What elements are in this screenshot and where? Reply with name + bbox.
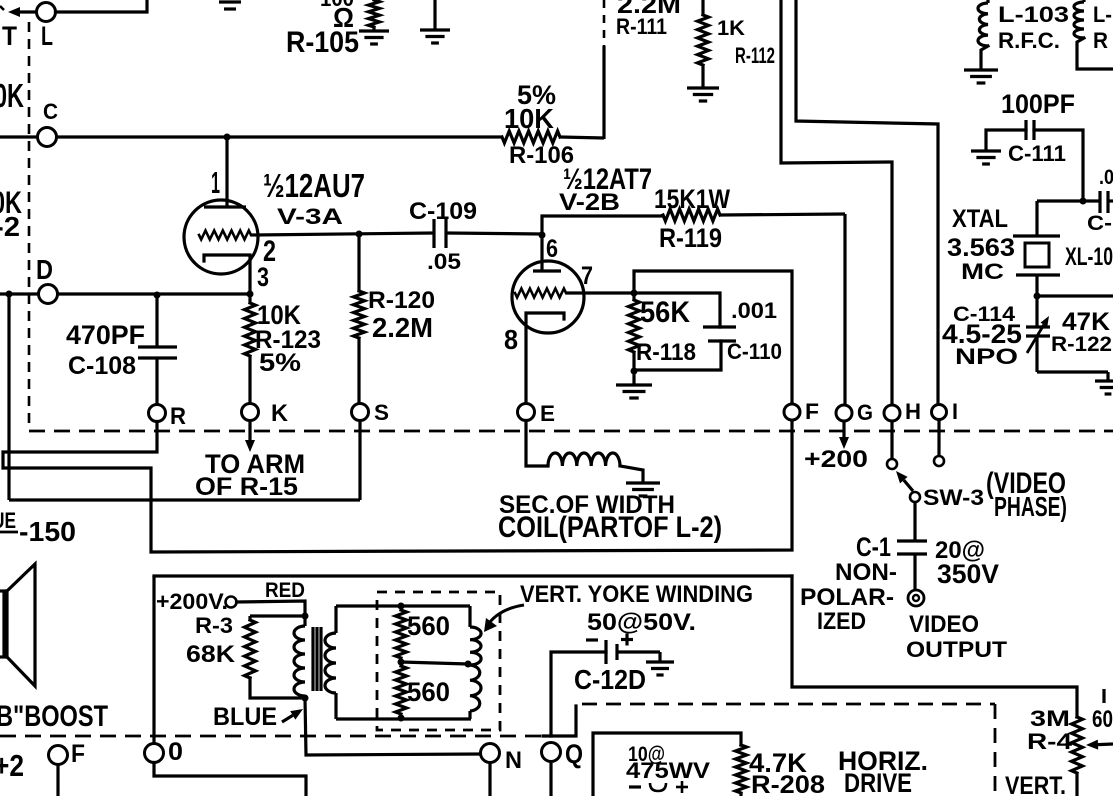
svg-text:VERT.: VERT.: [1005, 772, 1066, 796]
arrow node G +200: [804, 421, 868, 473]
svg-text:L-: L-: [1093, 2, 1112, 27]
junction 560 mid: [398, 659, 472, 668]
transformer secondary: [325, 606, 336, 719]
speaker: [0, 564, 35, 686]
wire yoke loop top: [336, 603, 470, 610]
node F bottom: [49, 740, 86, 796]
switch SW-3 pole: [910, 492, 920, 502]
wire plate pin 1 V-3A: [211, 137, 227, 207]
node R: [149, 404, 187, 430]
svg-text:C-1: C-1: [856, 532, 891, 562]
junction crystal top: [1037, 198, 1100, 205]
dashed line above R-106: [603, 0, 606, 46]
svg-text:2.2M: 2.2M: [372, 312, 433, 343]
wire plate pin 6 V-2B: [542, 235, 558, 271]
svg-text:Q: Q: [565, 739, 583, 769]
svg-text:1: 1: [211, 166, 220, 200]
resistor R-208: [736, 745, 826, 796]
arrow from K: [195, 421, 305, 501]
svg-text:½12AU7: ½12AU7: [263, 168, 365, 205]
terminal +200V: [156, 579, 305, 616]
svg-text:56K: 56K: [640, 297, 690, 329]
svg-text:RED: RED: [265, 579, 305, 602]
switch contact H: [887, 459, 897, 469]
wire yoke loop bottom: [336, 715, 471, 722]
wire R-106 up: [602, 46, 605, 139]
node D: [36, 254, 58, 304]
label BLUE with arrow: [213, 703, 303, 731]
svg-text:I: I: [952, 399, 958, 424]
resistor 560 lower: [396, 666, 451, 714]
svg-text:350V: 350V: [937, 559, 999, 589]
svg-text:POLAR-: POLAR-: [800, 585, 894, 611]
svg-text:C-110: C-110: [727, 339, 782, 364]
yoke coil upper: [470, 606, 481, 665]
switch contact I: [934, 456, 944, 466]
svg-text:N: N: [505, 748, 522, 774]
wire C line: [0, 135, 502, 138]
resistor R-123: [245, 294, 322, 403]
capacitor C-12D: [551, 610, 696, 736]
svg-text:.001: .001: [731, 298, 777, 323]
dashed horiz box top: [582, 703, 995, 706]
svg-text:-150: -150: [19, 516, 76, 547]
ground partial top-left: [219, 2, 241, 9]
transformer core: [313, 627, 321, 691]
svg-text:C-108: C-108: [68, 352, 136, 380]
wire S down: [358, 421, 361, 501]
junction C-108 top: [154, 292, 161, 299]
svg-text:560: 560: [407, 677, 450, 707]
svg-text:PHASE): PHASE): [994, 491, 1067, 522]
svg-text:.05: .05: [427, 249, 461, 274]
partial labels 0K -2: [0, 184, 22, 242]
cathode V-2B: [526, 313, 564, 404]
svg-text:R: R: [170, 404, 186, 430]
svg-text:R-4: R-4: [1027, 729, 1073, 754]
node K: [242, 401, 289, 427]
label VERT partial: [1005, 772, 1066, 796]
capacitor partial top-right: [1087, 166, 1113, 235]
yoke coil lower: [470, 665, 481, 719]
wire H to switch contact: [890, 421, 893, 459]
svg-text:60: 60: [1092, 707, 1113, 733]
svg-text:V-2B: V-2B: [559, 190, 620, 216]
svg-text:B"BOOST: B"BOOST: [0, 701, 108, 733]
svg-text:560: 560: [407, 611, 450, 641]
svg-text:OF R-15: OF R-15: [195, 473, 298, 501]
wire grid V-2B junction: [566, 290, 638, 297]
wire BLUE to node N: [305, 698, 481, 755]
dashed yoke winding box: [377, 592, 500, 730]
svg-text:XTAL: XTAL: [952, 205, 1008, 233]
junction D-left: [6, 291, 13, 298]
triode V-2B envelope: [512, 261, 584, 333]
terminal VIDEO OUTPUT: [906, 590, 1007, 662]
node H: [884, 399, 921, 424]
plate bar V-2B: [533, 269, 561, 272]
junction R-3 top: [302, 613, 309, 620]
triode V-3A envelope: [184, 200, 258, 274]
junction BLUE: [302, 695, 309, 702]
svg-text:6: 6: [546, 235, 558, 263]
resistor R-112: [687, 0, 775, 101]
dashed chassis line bottom: [0, 735, 543, 738]
svg-text:MC: MC: [961, 259, 1004, 284]
svg-text:R: R: [1093, 28, 1108, 53]
dashed border left: [28, 22, 31, 430]
svg-text:R-112: R-112: [735, 43, 775, 68]
svg-text:D: D: [36, 254, 53, 285]
svg-text:C-109: C-109: [409, 199, 477, 225]
arrow wiper R-4: [1086, 740, 1113, 750]
label B BOOST: [0, 701, 108, 733]
svg-text:H: H: [905, 399, 921, 424]
svg-text:475WV: 475WV: [626, 758, 710, 783]
wire S to D-branch: [9, 498, 360, 501]
svg-text:1K: 1K: [717, 17, 745, 40]
svg-text:L: L: [41, 21, 53, 51]
dashed chassis line AB: [29, 430, 1113, 433]
svg-text:T: T: [2, 21, 17, 51]
svg-text:R-120: R-120: [368, 288, 435, 314]
dashed horiz box right: [994, 704, 997, 796]
svg-text:V-3A: V-3A: [277, 204, 343, 229]
transformer primary: [294, 616, 305, 696]
svg-text:7: 7: [581, 262, 593, 290]
trimmer capacitor C-114: [942, 296, 1050, 372]
node O: [145, 738, 184, 766]
resistor 560 upper: [396, 610, 451, 658]
capacitor C-109: [409, 199, 542, 274]
switch SW-3 arm: [896, 471, 984, 510]
svg-text:5%: 5%: [259, 349, 301, 377]
junction node C-plate: [224, 134, 231, 141]
svg-text:470PF: 470PF: [66, 320, 145, 350]
inductor L-104 partial: [1074, 0, 1113, 69]
labels pins V-2B: [504, 262, 593, 355]
grid V-3A: [199, 231, 251, 240]
resistor R-118: [629, 293, 697, 375]
wire to node I: [796, 0, 938, 405]
node E: [518, 401, 556, 426]
svg-text:R-3: R-3: [195, 613, 233, 638]
wire box vert yoke top: [154, 574, 792, 577]
inductor L-103: [964, 0, 1069, 83]
label HORIZ DRIVE: [838, 746, 928, 796]
svg-text:8: 8: [504, 324, 518, 355]
node N: [481, 744, 523, 796]
wire to F top: [634, 271, 792, 404]
svg-text:47K: 47K: [1062, 308, 1110, 336]
wire R-119 to node G: [843, 214, 846, 406]
svg-text:R-208: R-208: [751, 771, 825, 796]
node G: [836, 400, 873, 425]
svg-text:C-: C-: [1087, 212, 1112, 235]
partial label 0K-left: [0, 78, 24, 115]
svg-text:OUTPUT: OUTPUT: [906, 637, 1007, 662]
svg-text:VIDEO: VIDEO: [909, 612, 979, 638]
svg-text:R-105: R-105: [286, 27, 359, 59]
svg-text:NPO: NPO: [955, 344, 1018, 369]
wire D line: [0, 292, 250, 295]
svg-text:-2: -2: [0, 211, 20, 242]
label 600 partial: [1092, 689, 1113, 733]
junction grid V-2B: [539, 232, 546, 239]
capacitor C-111: [971, 89, 1083, 201]
wire down from D-line left: [7, 294, 10, 500]
wire box right to R-4: [792, 576, 1077, 717]
svg-text:3M: 3M: [1030, 706, 1070, 731]
svg-text:0K: 0K: [0, 78, 24, 115]
node S: [352, 400, 390, 425]
svg-text:+2: +2: [0, 749, 24, 783]
partial label +2: [0, 749, 24, 783]
svg-text:R-111: R-111: [616, 14, 667, 39]
grid V-2B: [515, 289, 566, 298]
svg-text:DRIVE: DRIVE: [844, 768, 912, 796]
svg-text:3.563: 3.563: [947, 234, 1015, 262]
svg-text:+200V.: +200V.: [156, 589, 228, 614]
junction crystal bottom: [1034, 293, 1113, 300]
label V-3A: [257, 168, 365, 292]
resistor R-4: [1027, 706, 1083, 796]
svg-text:50@50V.: 50@50V.: [587, 610, 696, 636]
crystal XL-10: [947, 201, 1113, 296]
junction cathode V-3A: [247, 291, 254, 298]
node Q: [542, 739, 584, 796]
svg-text:E: E: [540, 401, 555, 426]
capacitor C-1: [800, 502, 999, 635]
resistor R-106: [502, 80, 604, 169]
svg-text:15K1W: 15K1W: [654, 184, 730, 214]
svg-text:F: F: [71, 740, 85, 768]
resistor R-120: [354, 234, 436, 403]
svg-text:L-103: L-103: [998, 2, 1069, 27]
resistor R-122 labels: [1051, 308, 1112, 356]
ground R-118: [616, 371, 652, 398]
svg-text:0: 0: [168, 738, 183, 766]
svg-text:XL-10: XL-10: [1065, 243, 1113, 271]
wire plate V-2B to R-119: [542, 216, 663, 235]
svg-text:S: S: [374, 400, 389, 425]
label video phase: [986, 468, 1067, 522]
svg-text:100PF: 100PF: [1001, 89, 1075, 119]
capacitor C-110: [634, 293, 782, 370]
wire R to F long path: [3, 421, 792, 553]
svg-text:VERT. YOKE WINDING: VERT. YOKE WINDING: [520, 582, 753, 608]
cathode V-3A: [204, 255, 250, 294]
terminal L with arrow to T: [2, 0, 147, 51]
capacitor 10@475WV box: [593, 733, 741, 796]
svg-text:C-12D: C-12D: [574, 664, 646, 695]
svg-text:C-111: C-111: [1008, 141, 1066, 166]
label VERT. YOKE WINDING: [484, 582, 753, 632]
svg-text:R-119: R-119: [659, 223, 722, 253]
svg-text:3: 3: [257, 262, 269, 292]
node F: [784, 399, 819, 424]
svg-text:G: G: [857, 400, 873, 425]
svg-text:IZED: IZED: [817, 609, 866, 635]
resistor R-3: [186, 613, 305, 698]
partial mark top-left corner: [0, 6, 4, 10]
wire I to switch contact: [937, 420, 940, 457]
plate bar V-3A: [204, 205, 246, 208]
svg-text:R.F.C.: R.F.C.: [998, 28, 1060, 53]
resistor R-119: [654, 184, 845, 253]
label UE -150: [0, 508, 76, 547]
label V-2B: [559, 164, 652, 216]
svg-text:+200: +200: [804, 447, 868, 473]
resistor R-111 label: [616, 0, 681, 39]
ground with wire at top: [420, 0, 450, 43]
svg-text:COIL(PARTOF L-2): COIL(PARTOF L-2): [498, 512, 722, 544]
svg-text:C: C: [43, 99, 58, 124]
svg-text:NON-: NON-: [835, 560, 897, 586]
node I: [932, 399, 959, 424]
svg-text:K: K: [271, 401, 288, 427]
wire to R-122: [1037, 372, 1113, 394]
svg-text:F: F: [805, 399, 819, 424]
secondary width coil: [498, 421, 722, 545]
svg-text:.0: .0: [1099, 166, 1113, 189]
svg-text:BLUE: BLUE: [213, 703, 277, 731]
svg-text:R-118: R-118: [636, 340, 696, 366]
svg-text:UE: UE: [0, 508, 16, 533]
wire to node H: [781, 0, 892, 406]
svg-text:R-122: R-122: [1051, 333, 1112, 356]
capacitor C-108: [66, 295, 177, 404]
svg-text:SW-3: SW-3: [923, 485, 984, 510]
svg-text:68K: 68K: [186, 642, 235, 668]
junction R-120 top: [356, 231, 363, 238]
wire box left edge: [152, 576, 155, 744]
node C: [38, 99, 59, 147]
wire grid V-3A to C-109: [251, 233, 434, 235]
wire Q jog: [543, 706, 576, 736]
wire node O down: [154, 763, 306, 796]
resistor R-105 with ground: [286, 0, 389, 59]
